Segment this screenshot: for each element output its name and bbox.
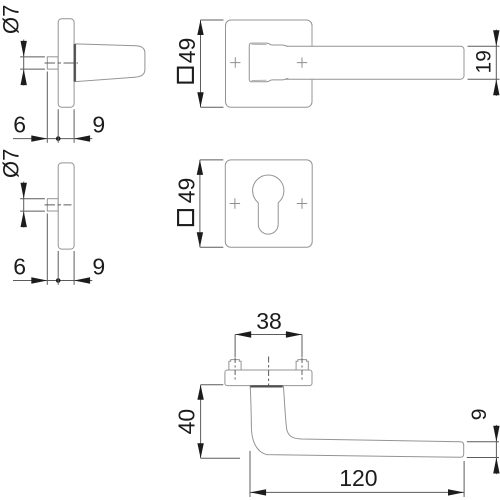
svg-text:6: 6	[13, 253, 26, 279]
square symbol (bottom 49)	[178, 210, 193, 225]
dim 49 arrow bottom	[197, 232, 203, 247]
dim 38 arrow left	[235, 331, 251, 337]
lever bar	[266, 46, 464, 79]
dim 9 arrow	[74, 277, 90, 283]
handle axis centerline	[268, 357, 270, 391]
centerline	[45, 204, 72, 206]
dim 38 extension / centerline left	[234, 335, 236, 358]
dim 49 arrow top	[197, 20, 203, 35]
screw mark right	[297, 198, 307, 208]
square symbol (top 49)	[178, 68, 193, 83]
dim 40 extension lines	[201, 384, 224, 386]
dim Ø7 line	[23, 182, 25, 228]
svg-text:Ø7: Ø7	[0, 5, 23, 34]
dim 6/9 line	[13, 138, 92, 140]
dim 9 line	[495, 425, 497, 474]
dim 9 arrow	[74, 135, 90, 141]
neck collar bottom	[252, 79, 267, 81]
lever neck front fill	[249, 43, 288, 82]
dim origin dot	[56, 278, 61, 283]
rose side profile	[58, 19, 74, 107]
dim 19 arrow top	[493, 30, 499, 46]
dim 49 extension lines	[200, 159, 223, 161]
svg-text:6: 6	[13, 111, 26, 137]
dim 49 extension lines	[201, 19, 224, 21]
dim 6 arrow	[31, 277, 47, 283]
screw post right	[296, 360, 308, 370]
dim 6/9 line	[13, 280, 92, 282]
dim 120 arrow right	[448, 489, 464, 495]
dim 6 arrow	[31, 135, 47, 141]
dim Ø7 arrow bottom	[21, 211, 27, 227]
extension line rose right	[73, 251, 75, 285]
dim 49 arrow top	[197, 160, 203, 175]
dim 49 line (bottom rose)	[199, 160, 201, 247]
screw mark left	[230, 57, 240, 67]
rose plate edge-on	[225, 370, 312, 386]
dim 38 line	[235, 334, 302, 336]
dim 9 arrow bottom	[493, 458, 499, 474]
svg-text:120: 120	[339, 465, 377, 491]
dim 120 arrow left	[250, 489, 266, 495]
spindle stem	[47, 199, 58, 211]
dim 120 line	[250, 491, 464, 493]
extension line rose left	[57, 109, 59, 143]
neck/rose junction thick edge	[74, 44, 76, 82]
dim 40 arrow top	[197, 385, 203, 400]
dim 9 extension lines	[467, 441, 499, 443]
dim 38 extension / centerline right	[301, 335, 303, 358]
extension line rose left	[57, 251, 59, 285]
svg-text:49: 49	[173, 178, 199, 204]
extension line rose right	[73, 109, 75, 143]
dim 38 arrow right	[286, 331, 302, 337]
svg-text:9: 9	[92, 111, 105, 137]
dim Ø7 arrow bottom	[21, 69, 27, 85]
lever grip plan outline	[250, 387, 464, 458]
dim Ø7 arrow top	[21, 183, 27, 199]
neck/rose junction thick edge	[250, 385, 282, 387]
centerline	[45, 62, 79, 64]
svg-text:38: 38	[256, 308, 282, 334]
dim 19 arrow bottom	[493, 79, 499, 95]
square rose front	[225, 160, 312, 247]
dim 49 line (top)	[200, 20, 202, 107]
dim 19 extension lines	[468, 45, 500, 47]
dim 40 arrow bottom	[197, 443, 203, 458]
svg-text:40: 40	[174, 409, 200, 435]
extension line stem left	[46, 72, 48, 143]
dim 9 arrow top	[493, 426, 499, 442]
screw mark on lever	[297, 57, 307, 67]
dim Ø7 extension lines	[20, 198, 45, 200]
svg-text:9: 9	[92, 253, 105, 279]
screw centerline left	[234, 358, 236, 380]
screw mark left	[230, 198, 240, 208]
dim Ø7 line	[23, 40, 25, 86]
dim Ø7 extension lines	[20, 56, 45, 58]
neck collar top	[252, 43, 267, 45]
dim origin dot	[56, 136, 61, 141]
screw centerline right	[301, 358, 303, 380]
square rose front	[226, 20, 313, 107]
rose side profile	[58, 163, 74, 249]
svg-text:9: 9	[467, 408, 491, 420]
dim 49 arrow bottom	[197, 92, 203, 107]
euro profile cylinder hole	[253, 175, 284, 234]
svg-text:49: 49	[174, 38, 200, 64]
spindle stem	[47, 57, 58, 69]
dim 19 line	[495, 30, 497, 97]
dim Ø7 arrow top	[21, 41, 27, 57]
screw post left	[229, 360, 241, 370]
svg-text:19: 19	[473, 50, 496, 73]
lever neck front contour	[249, 43, 288, 82]
dim 120 extension right	[463, 461, 465, 497]
svg-text:Ø7: Ø7	[0, 149, 23, 178]
dim 120 extension left	[249, 451, 251, 497]
dim 40 line	[200, 385, 202, 459]
extension line stem left	[46, 214, 48, 285]
lever neck (end-on taper)	[76, 44, 145, 82]
